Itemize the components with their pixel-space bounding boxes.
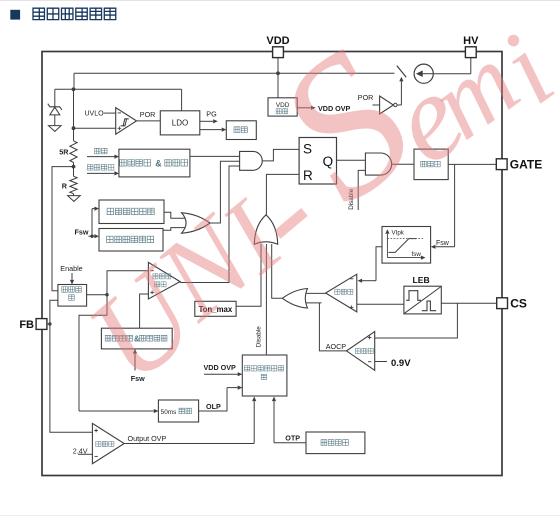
svg-text:LDO: LDO	[172, 119, 188, 128]
svg-text:Disable: Disable	[256, 326, 263, 347]
svg-text:GATE: GATE	[510, 158, 542, 172]
svg-text:OLP: OLP	[206, 402, 221, 411]
wire AOCP out to OR2	[319, 303, 346, 351]
svg-text:FB: FB	[19, 319, 34, 331]
svg-text:POR: POR	[140, 110, 156, 119]
wire to 50ms delay	[79, 295, 107, 411]
label PG + arrow	[200, 120, 213, 122]
svg-text:Fsw: Fsw	[75, 227, 89, 236]
ground (divider)	[68, 196, 81, 202]
and-gate AND2	[365, 153, 391, 175]
svg-text:AOCP: AOCP	[326, 342, 347, 351]
label 使能	[95, 148, 101, 154]
svg-text:0.9V: 0.9V	[391, 358, 411, 369]
wire AND1 out to S	[262, 149, 299, 161]
label 短路保护	[87, 165, 93, 171]
wire Fsw into blocks	[89, 235, 95, 237]
resistor 5R	[70, 141, 77, 163]
resistor R	[70, 176, 77, 194]
svg-text:UVLO: UVLO	[85, 111, 105, 118]
block bias 偏置	[226, 121, 256, 140]
wire FB to comparator	[47, 323, 50, 325]
wire OLP	[199, 388, 227, 411]
ground (zener)	[49, 126, 62, 132]
hysteresis glyph	[121, 119, 129, 126]
or-gate OR1 (timing)	[164, 212, 185, 218]
wire HV pin drop	[470, 58, 472, 74]
wire Disable stub to AND2	[358, 170, 365, 210]
wire Fsw into reference	[134, 354, 136, 371]
wire timing block to AND1	[190, 155, 240, 157]
wire rail1 left end down to rail2	[73, 73, 75, 89]
node divider mid junction	[72, 165, 76, 169]
block Ton_max	[195, 301, 236, 316]
wire soft drive to GATE	[448, 163, 496, 165]
svg-text:5R: 5R	[59, 148, 69, 157]
block 最大关断时间	[99, 229, 163, 252]
ramp curve	[388, 239, 416, 253]
wire rail2 to LDO top	[181, 89, 183, 111]
wire comparator plus to LEB	[357, 303, 404, 305]
svg-text:VIpk: VIpk	[392, 230, 405, 237]
inverter U-POR buffer	[380, 96, 394, 114]
amplifier 差分放大器	[148, 262, 180, 299]
svg-text:LEB: LEB	[413, 275, 430, 285]
comparator AOCP	[347, 332, 375, 371]
svg-text:CS: CS	[510, 297, 527, 311]
switch blade (HV startup)	[397, 66, 406, 78]
block 动态响应优化	[99, 200, 164, 224]
block 故障管理和计时	[242, 355, 287, 396]
wire Fsw sense down	[454, 164, 456, 246]
node UVLO sense junction	[72, 126, 76, 130]
svg-text:R: R	[62, 182, 68, 191]
wire VIpk to comparator minus	[376, 247, 382, 281]
comparator 比较器 (PWM)	[326, 274, 357, 312]
comparator Output OVP	[92, 423, 124, 463]
block VDD过压	[268, 98, 297, 116]
pin HV	[465, 47, 476, 58]
svg-text:VDD OVP: VDD OVP	[204, 363, 237, 372]
pin GATE	[496, 159, 507, 170]
title bullet square	[10, 10, 20, 20]
wire plus input from reference	[140, 294, 149, 328]
svg-text:Fsw: Fsw	[436, 240, 450, 247]
wire sample-hold out	[87, 294, 107, 296]
wire to error amp minus	[107, 271, 148, 295]
wire rail2 (zener/LDO rail)	[55, 88, 182, 90]
svg-text:50ms: 50ms	[161, 409, 177, 416]
svg-text:Enable: Enable	[60, 264, 82, 273]
svg-text:Output OVP: Output OVP	[128, 434, 167, 443]
wire rail from current source to HV	[433, 73, 471, 75]
or-gate OR2 (mirrored)	[282, 289, 307, 309]
block 关断时间&软启动	[119, 149, 190, 177]
wire CS branch to AOCP plus	[375, 303, 458, 338]
wire rail2 down to 5R	[73, 89, 75, 141]
svg-text:OTP: OTP	[285, 433, 300, 442]
wire Q to AND2	[337, 159, 366, 161]
pin FB	[36, 319, 47, 330]
wire error amp out to AND1	[180, 166, 240, 283]
wire POR to LDO	[137, 120, 161, 122]
wire VDD rail y=72	[74, 72, 395, 74]
pin CS	[497, 298, 508, 309]
wire Ton_max to OR3	[236, 244, 261, 306]
block 软驱动	[414, 149, 448, 180]
node junction VDD rail	[276, 71, 280, 75]
block 50ms延迟	[158, 400, 198, 422]
wire LDO to bias	[200, 129, 222, 131]
wire divider tap to sample-hold	[52, 167, 74, 291]
block VIpk ramp generator	[382, 227, 431, 264]
wire OR1 out to AND1	[210, 161, 240, 223]
title text 内部功能框图	[33, 8, 44, 19]
latch U-SR	[299, 138, 336, 185]
regulator LDO	[160, 111, 200, 135]
node junction rail2	[72, 87, 76, 91]
wire UVLO minus stub	[104, 112, 116, 114]
svg-text:&: &	[155, 159, 162, 169]
block 采样保持	[58, 285, 87, 307]
svg-text:fsw: fsw	[412, 251, 422, 258]
wire OR3 out to R	[266, 174, 299, 214]
wire inverter output to switch	[397, 104, 401, 106]
comparator UVLO	[116, 108, 137, 135]
current source I1	[414, 64, 433, 83]
wire LEB to CS	[441, 302, 496, 304]
block 过热保护	[306, 432, 365, 454]
wire comparator out to OR2	[304, 292, 325, 294]
svg-text:PG: PG	[206, 110, 217, 119]
wire OTP to fault	[274, 442, 306, 444]
wire AND2 to soft drive	[392, 163, 414, 165]
or-gate OR3 (reset)	[254, 215, 277, 245]
wire VDD OVP out	[297, 107, 311, 109]
wire VDD pin drop	[277, 58, 279, 98]
block LEB	[404, 286, 441, 314]
wire AOCP branch into OR2	[304, 302, 321, 304]
pin VDD	[273, 47, 284, 58]
wire zener top	[54, 89, 56, 107]
block 输出基准&误差补偿	[101, 328, 172, 349]
zener diode D1	[48, 104, 62, 110]
svg-text:R: R	[303, 168, 313, 183]
wire Disable (fault) to OR3	[265, 244, 267, 355]
wire POR input stub	[373, 104, 380, 106]
and-gate AND1	[240, 151, 263, 170]
wire OR2 out up to OR3	[272, 244, 283, 298]
wire 0.9V stub	[375, 361, 387, 363]
wire UVLO plus input	[74, 127, 116, 129]
wire Output OVP to fault	[124, 443, 254, 445]
IC outer boundary box	[42, 52, 502, 476]
